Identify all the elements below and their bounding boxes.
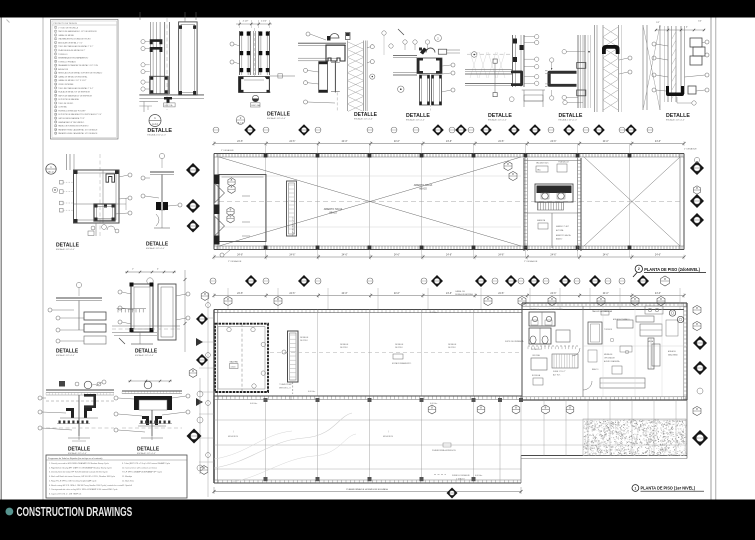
svg-text:4 1/2": 4 1/2"	[261, 21, 267, 23]
svg-text:PARANTE HSS4 CADA METAL 16"O D: PARANTE HSS4 CADA METAL 16"O DE ANCE	[58, 128, 98, 131]
leader circles between details	[382, 31, 386, 35]
svg-text:ABAJO: ABAJO	[419, 187, 427, 190]
svg-text:24'-6": 24'-6"	[498, 292, 504, 295]
svg-text:OFICINA DE: OFICINA DE	[604, 356, 615, 359]
plan 2 left room	[214, 175, 295, 245]
svg-text:9: 9	[55, 57, 56, 59]
svg-text:PARANTE HSS4 CADA METAL 14"O D: PARANTE HSS4 CADA METAL 14"O DE ANCE	[58, 132, 98, 135]
legend notes box	[51, 20, 119, 140]
svg-text:REMOLACION DE METAL SOPORTE DE: REMOLACION DE METAL SOPORTE DE TECHADO	[58, 72, 102, 75]
svg-text:24'-6": 24'-6"	[394, 292, 400, 295]
left col markers mid2	[189, 369, 197, 378]
svg-text:20: 20	[55, 99, 57, 101]
detail T4 head mullion	[393, 29, 460, 121]
svg-text:LAMINA TAB 1/8" RECUBRIDO: LAMINA TAB 1/8" RECUBRIDO	[58, 121, 84, 124]
svg-text:18: 18	[55, 92, 57, 94]
sheet left border line	[42, 18, 44, 500]
svg-text:19: 19	[55, 95, 57, 97]
svg-text:4": 4"	[659, 27, 661, 29]
svg-text:CANAL DE METAL: CANAL DE METAL	[58, 34, 74, 37]
top black border strip	[0, 0, 755, 18]
svg-text:ALTURA: ALTURA	[556, 229, 564, 232]
svg-text:24'-6": 24'-6"	[237, 140, 243, 143]
svg-text:OFICINA: OFICINA	[532, 354, 540, 357]
svg-text:PLACA DE METAL 7/8" DE ESPESOR: PLACA DE METAL 7/8" DE ESPESOR	[58, 91, 90, 94]
svg-text:ABAJO: ABAJO	[556, 238, 563, 241]
svg-text:2' M ALTO: 2' M ALTO	[456, 477, 465, 480]
svg-text:22: 22	[55, 107, 57, 109]
svg-text:TUBO DE VIDRIO: TUBO DE VIDRIO	[58, 103, 74, 105]
svg-text:ESCALA 1 1/2"=1'-0": ESCALA 1 1/2"=1'-0"	[559, 118, 578, 121]
svg-text:27: 27	[55, 126, 57, 128]
svg-text:24'-6": 24'-6"	[342, 292, 348, 295]
svg-text:VAC: VAC	[537, 169, 542, 172]
plan 2 title	[633, 265, 706, 277]
plan 1 title	[632, 485, 704, 492]
svg-text:13: 13	[55, 73, 57, 75]
svg-text:4.00 Hrs: 4.00 Hrs	[308, 390, 315, 393]
svg-text:PANEL DE HORMIGON EXPUESTO: PANEL DE HORMIGON EXPUESTO	[58, 125, 89, 128]
svg-text:DETALLE: DETALLE	[267, 111, 290, 117]
svg-text:24'-6": 24'-6"	[550, 140, 556, 143]
svg-text:A-4.3: A-4.3	[238, 122, 244, 125]
svg-text:24'-6": 24'-6"	[498, 140, 504, 143]
plan 1 top edge wall	[214, 310, 684, 484]
svg-text:DETALLE: DETALLE	[56, 348, 79, 354]
platform column grid	[214, 398, 687, 481]
svg-text:8. Caprico BT UTIL D . DIE TEM: 8. Caprico BT UTIL D . DIE TEMP 0.6	[49, 492, 82, 495]
svg-text:10. Concurrence with contracts: 10. Concurrence with contracts at times)	[122, 466, 157, 469]
svg-text:TAPON DE MADERA 3/4" DE ESPESO: TAPON DE MADERA 3/4" DE ESPESOR	[58, 94, 92, 97]
svg-text:2" DESAGUE: 2" DESAGUE	[221, 149, 234, 152]
svg-text:ESC GA: ESC GA	[252, 104, 261, 107]
svg-text:ESCALA 1 1/2"=1'-0": ESCALA 1 1/2"=1'-0"	[137, 452, 156, 455]
svg-text:24'-6": 24'-6"	[655, 140, 661, 143]
svg-text:24'-6": 24'-6"	[446, 140, 452, 143]
svg-text:PLANTA DE PISO (1er NIVEL): PLANTA DE PISO (1er NIVEL)	[641, 485, 696, 490]
svg-text:DE PISO: DE PISO	[340, 347, 348, 349]
detail L4 window jamb vertical	[112, 269, 190, 358]
plan 2 centerlines	[219, 176, 684, 227]
detail T3 head section with hatch	[298, 32, 377, 121]
main block entrance and benches	[645, 306, 684, 369]
svg-text:SOPORTE DE MADERA: SOPORTE DE MADERA	[58, 98, 79, 101]
detail T8a X braced strip	[643, 25, 660, 110]
plan 2 X bracing open bays	[219, 157, 680, 246]
svg-text:8: 8	[55, 54, 56, 56]
svg-text:24'-6": 24'-6"	[603, 140, 609, 143]
svg-text:1: 1	[55, 27, 56, 29]
svg-text:DETALLE: DETALLE	[68, 446, 91, 452]
svg-text:PROYECTO DE TECHOS: PROYECTO DE TECHOS	[54, 23, 78, 25]
svg-text:24'-6": 24'-6"	[603, 253, 609, 256]
svg-text:ESCALA 1 1/2"=1'-0": ESCALA 1 1/2"=1'-0"	[147, 133, 166, 136]
svg-text:VER DE LL.O: VER DE LL.O	[279, 388, 291, 390]
svg-text:24'-6": 24'-6"	[237, 253, 243, 256]
svg-text:DETALLE: DETALLE	[448, 343, 457, 346]
svg-text:CONSTRUCTION DRAWINGS: CONSTRUCTION DRAWINGS	[17, 506, 133, 520]
svg-text:TORNILLO PRIVADO: TORNILLO PRIVADO	[58, 60, 76, 63]
svg-text:24'-6": 24'-6"	[446, 292, 452, 295]
svg-text:DE PISO: DE PISO	[448, 347, 456, 349]
svg-text:PLATAFORMA HORMIGON: PLATAFORMA HORMIGON	[432, 449, 456, 452]
svg-text:ABAJO: ABAJO	[329, 211, 337, 214]
svg-text:15: 15	[55, 80, 57, 82]
svg-text:ACERO MADERA: ACERO MADERA	[604, 360, 620, 363]
svg-text:ESCALA 1 1/2"=1'-0": ESCALA 1 1/2"=1'-0"	[135, 354, 154, 357]
svg-text:"CLAVE PUMP": "CLAVE PUMP"	[279, 383, 293, 386]
svg-text:4.60m: 4.60m	[231, 366, 237, 368]
svg-text:ANGULAR DE METAL 2" X 2": ANGULAR DE METAL 2" X 2"	[58, 41, 83, 44]
svg-text:PASAMANOS TAPACAP DE METAL 1 1: PASAMANOS TAPACAP DE METAL 1 1/2" CON	[58, 64, 98, 67]
svg-text:DETALLE: DETALLE	[395, 343, 404, 346]
svg-text:CANAL DE: CANAL DE	[455, 290, 466, 293]
svg-text:BANCO: BANCO	[592, 368, 599, 371]
svg-text:ESCALA 1 1/2"=1'-0": ESCALA 1 1/2"=1'-0"	[146, 247, 165, 250]
svg-text:14: 14	[55, 76, 57, 78]
svg-text:MOHOSOS: MOHOSOS	[228, 436, 239, 438]
svg-text:PLANTA DE PISO (2doNIVEL): PLANTA DE PISO (2doNIVEL)	[644, 267, 700, 272]
svg-text:W PASILLO: W PASILLO	[531, 348, 542, 351]
main block bathrooms	[528, 308, 580, 351]
svg-text:2" DESAGUE: 2" DESAGUE	[228, 260, 242, 263]
svg-text:2": 2"	[132, 269, 134, 271]
svg-text:2" DESAGUE: 2" DESAGUE	[684, 148, 697, 151]
svg-text:12: 12	[55, 69, 57, 71]
detail L1 corner mullion plan	[46, 154, 132, 251]
svg-text:6. Reach swing HP. P.S. SPH+L: 6. Reach swing HP. P.S. SPH+L OM SM Trax…	[49, 484, 122, 487]
plan 2 stair shaft	[287, 181, 297, 236]
left col bottom ref markers	[187, 378, 204, 474]
svg-text:MANSO 2" ALT: MANSO 2" ALT	[556, 225, 570, 228]
concrete speckle texture	[583, 419, 687, 456]
detail T6 channel at column	[545, 35, 591, 121]
svg-text:13. Specfull: 13. Specfull	[122, 485, 133, 487]
svg-text:ESCALA 1 1/2"=1'-0": ESCALA 1 1/2"=1'-0"	[354, 118, 373, 121]
svg-text:PLANCHUELA DE METAL DE 2": PLANCHUELA DE METAL DE 2"	[58, 49, 85, 52]
svg-text:24'-6": 24'-6"	[289, 292, 295, 295]
svg-text:DETALLE: DETALLE	[146, 241, 169, 247]
footer teal bullet	[5, 508, 13, 516]
svg-text:DETALLE: DETALLE	[340, 343, 349, 346]
plan 2 column grid	[264, 144, 632, 258]
left sheet edge line	[0, 18, 2, 500]
svg-text:23: 23	[55, 110, 57, 112]
plan 2 dimension line below	[213, 250, 686, 263]
svg-text:AREA DE: AREA DE	[668, 350, 677, 353]
svg-text:ESCALA 1 1/2"=1'-0": ESCALA 1 1/2"=1'-0"	[267, 117, 286, 120]
plan1 grid extension lines	[228, 288, 680, 309]
plan 1 veranda strip	[214, 310, 524, 401]
svg-text:TRAGALUZ: TRAGALUZ	[558, 161, 569, 164]
detail T2 mullion elevation	[230, 20, 295, 125]
svg-text:ESCALA 1 1/2"=1'-0": ESCALA 1 1/2"=1'-0"	[68, 452, 87, 455]
svg-text:17: 17	[55, 88, 57, 90]
svg-text:28: 28	[55, 129, 57, 131]
svg-text:TUBO RECTANGULAR DE METAL 2" X: TUBO RECTANGULAR DE METAL 2" X 2"	[58, 45, 93, 48]
svg-text:TALLER DE MADERA: TALLER DE MADERA	[592, 310, 613, 313]
svg-text:11. Mordaje: 11. Mordaje	[122, 475, 133, 478]
svg-text:BODEGA: BODEGA	[532, 374, 541, 377]
left mid marker diamonds	[186, 163, 200, 233]
svg-text:24'-6": 24'-6"	[603, 292, 609, 295]
svg-text:5. Rayo Pre-E SPH+L UNO exciti: 5. Rayo Pre-E SPH+L UNO exciting Tarqled…	[49, 479, 97, 482]
svg-text:5: 5	[55, 42, 56, 44]
svg-text:24'-6": 24'-6"	[289, 140, 295, 143]
svg-text:ESCALA 1 1/2"=1'-0": ESCALA 1 1/2"=1'-0"	[666, 119, 685, 122]
svg-text:ALT W.T.: ALT W.T.	[553, 374, 561, 377]
svg-text:A-4.2: A-4.2	[152, 123, 158, 126]
svg-text:4": 4"	[157, 269, 159, 271]
svg-text:TUBO RECTANGULAR DE METAL 2" X: TUBO RECTANGULAR DE METAL 2" X 4"	[58, 87, 93, 90]
svg-text:VIDRIO INTERME: VIDRIO INTERME	[58, 84, 74, 86]
svg-text:1: 1	[635, 486, 637, 490]
svg-text:24'-6": 24'-6"	[655, 292, 661, 295]
svg-text:SUITE DE VERANDA: SUITE DE VERANDA	[505, 340, 524, 343]
plan 1 pump shaft	[279, 331, 309, 394]
svg-text:MOHOSOS: MOHOSOS	[383, 436, 394, 438]
svg-text:GUARDARROPA: GUARDARROPA	[548, 308, 563, 311]
svg-text:2: 2	[55, 31, 56, 33]
svg-text:DE PISO: DE PISO	[395, 347, 403, 349]
svg-text:ESCALA 1 1/2"=1'-0": ESCALA 1 1/2"=1'-0"	[406, 118, 425, 121]
svg-text:9. Tufos (BRT UTIL+O 9 qil +L: 9. Tufos (BRT UTIL+O 9 qil +LDO trained …	[122, 462, 171, 465]
svg-text:16: 16	[55, 84, 57, 86]
svg-text:24'-6": 24'-6"	[237, 292, 243, 295]
svg-text:11: 11	[55, 65, 57, 67]
svg-text:TAPON DE MADERA DE 1 1/2" DE E: TAPON DE MADERA DE 1 1/2" DE ESPESOR	[58, 30, 97, 33]
svg-text:2" DESAGUE: 2" DESAGUE	[524, 260, 538, 263]
svg-text:ESCALA 1 1/2"=1'-0": ESCALA 1 1/2"=1'-0"	[56, 248, 75, 251]
svg-text:GALERA: GALERA	[230, 360, 239, 363]
plan 2 service core	[504, 158, 581, 251]
plan 2 dimension line above	[213, 140, 698, 152]
detail L3 soffit section	[48, 282, 106, 357]
svg-text:MESA DE: MESA DE	[604, 353, 613, 356]
general notes table	[46, 455, 187, 498]
platform dimension line	[213, 487, 523, 499]
svg-text:DETALLE: DETALLE	[56, 242, 79, 248]
svg-text:ENTRADA: ENTRADA	[530, 308, 540, 311]
plan1 right margin markers	[692, 305, 708, 446]
platform edges	[214, 400, 687, 483]
svg-text:DETALLE: DETALLE	[406, 113, 430, 119]
svg-text:A6-12: A6-12	[48, 171, 54, 174]
svg-text:24'-6": 24'-6"	[289, 253, 295, 256]
svg-text:SUBE EL DESAGUE: SUBE EL DESAGUE	[452, 474, 470, 477]
svg-text:4. Rock self Batch de traver: 4. Rock self Batch de traver Screens, HP…	[49, 475, 116, 478]
svg-text:DETALLE: DETALLE	[147, 128, 172, 134]
main block extra furniture	[572, 307, 687, 397]
svg-text:ESC DA: ESC DA	[165, 104, 173, 107]
svg-text:ESCALA 1 1/2"=1'-0": ESCALA 1 1/2"=1'-0"	[56, 354, 75, 357]
plan 2 perimeter walls	[214, 154, 684, 250]
main block workshop	[583, 307, 678, 397]
svg-text:24'-6": 24'-6"	[498, 253, 504, 256]
main block stair and offices	[531, 354, 578, 385]
svg-text:24'-6": 24'-6"	[655, 253, 661, 256]
svg-text:24'-6": 24'-6"	[342, 253, 348, 256]
svg-text:ESCALA 1 1/2"=1'-0": ESCALA 1 1/2"=1'-0"	[488, 119, 507, 122]
svg-text:Programas de Todo los Rejados: Programas de Todo los Rejados (los inclu…	[48, 457, 103, 460]
svg-text:4 1/2": 4 1/2"	[243, 21, 249, 23]
svg-text:AISLACION: AISLACION	[58, 68, 68, 71]
sheet right border outer line	[715, 18, 717, 500]
svg-text:CANAL DE METAL CHORIZONTAL: CANAL DE METAL CHORIZONTAL	[58, 75, 87, 78]
plan 1 galera room	[215, 324, 268, 392]
section marker row above plan 2	[213, 124, 653, 136]
bottom black border strip	[0, 500, 755, 540]
svg-text:DETALLE: DETALLE	[135, 348, 158, 354]
svg-text:CAPOLETA DE MADERA 7"X 9": CAPOLETA DE MADERA 7"X 9"	[58, 117, 85, 120]
svg-text:29: 29	[55, 133, 57, 135]
svg-text:3. Directly Semi be below HP T: 3. Directly Semi be below HP TU/CSS (D45…	[49, 471, 109, 474]
marker row between plans	[210, 275, 669, 287]
detail B1 ceiling hanger	[38, 380, 114, 455]
detail L2 I-beam hanger	[141, 153, 182, 250]
svg-text:AREA DE TRABAJO: AREA DE TRABAJO	[613, 318, 630, 321]
svg-text:VIA PARA ESTRUCTURAS DE TECHO: VIA PARA ESTRUCTURAS DE TECHO	[58, 38, 91, 41]
svg-text:MASETA: MASETA	[537, 219, 546, 222]
svg-text:DETALLE: DETALLE	[300, 336, 309, 339]
svg-text:TORNILLO: TORNILLO	[58, 54, 68, 56]
svg-text:24'-6": 24'-6"	[550, 253, 556, 256]
svg-text:CANAL DE METAL C 1/2" X 3 1/2": CANAL DE METAL C 1/2" X 3 1/2"	[58, 79, 86, 82]
svg-text:2: 2	[638, 267, 640, 271]
detail T9 rightmost section	[652, 21, 709, 122]
svg-text:VACIADO A/C: VACIADO A/C	[536, 162, 549, 165]
svg-text:1. Directly secured to HSS DRI: 1. Directly secured to HSS DRILL/DEASAP …	[49, 462, 110, 465]
svg-text:TORNOS: TORNOS	[604, 329, 613, 331]
svg-text:1/4": 1/4"	[698, 21, 702, 23]
margin registration mark	[7, 20, 10, 23]
svg-text:PLATAFORMA DE HORMIGON ELEV: PLATAFORMA DE HORMIGON ELEVADA	[346, 488, 388, 491]
svg-text:21: 21	[55, 103, 57, 105]
svg-text:DETALLE: DETALLE	[354, 112, 377, 118]
detail T1 roof channel section	[139, 12, 204, 136]
svg-text:ABIERTO HACIA: ABIERTO HACIA	[556, 234, 571, 237]
svg-text:4.00 Hrs: 4.00 Hrs	[430, 311, 437, 314]
svg-text:CORTINA: CORTINA	[58, 106, 67, 109]
svg-text:MAQUINAS: MAQUINAS	[668, 353, 678, 356]
svg-text:24'-6": 24'-6"	[394, 140, 400, 143]
svg-text:7. Consignando de color ua fo: 7. Consignando de color ua fog HP.S. SPH…	[49, 488, 118, 491]
svg-text:25: 25	[55, 118, 57, 120]
svg-text:4.00 Hrs: 4.00 Hrs	[250, 402, 257, 405]
detail B2 ceiling channel	[114, 380, 190, 455]
svg-text:PUERTA CORREDIZA "POCKET": PUERTA CORREDIZA "POCKET"	[58, 109, 86, 112]
svg-text:24: 24	[55, 114, 57, 116]
platform labels	[228, 402, 574, 480]
svg-text:4": 4"	[686, 27, 688, 29]
svg-text:SOPORTE DE MADERA CTRL VERTICA: SOPORTE DE MADERA CTRL VERTICALES 2" X 4…	[58, 113, 102, 116]
svg-text:DETALLE: DETALLE	[559, 113, 583, 119]
svg-text:24'-6": 24'-6"	[550, 292, 556, 295]
svg-text:DE PISO: DE PISO	[300, 340, 308, 342]
svg-text:10: 10	[55, 61, 57, 63]
svg-text:12. Back Stes: 12. Back Stes	[122, 479, 134, 482]
detail T7 hatched wall with cap	[595, 25, 633, 112]
svg-text:7: 7	[55, 50, 56, 52]
sheet right border inner line	[710, 18, 712, 500]
svg-text:6: 6	[55, 46, 56, 48]
svg-text:ESTACIONAMIENTO: ESTACIONAMIENTO	[392, 362, 412, 365]
svg-text:4.00 Hrs: 4.00 Hrs	[475, 474, 482, 477]
svg-text:24'-6": 24'-6"	[342, 140, 348, 143]
svg-text:24'-6": 24'-6"	[446, 253, 452, 256]
svg-text:1/2": 1/2"	[656, 22, 660, 24]
svg-text:3: 3	[55, 35, 56, 37]
svg-text:SUBE 17 16.7": SUBE 17 16.7"	[553, 371, 566, 373]
plan1 left margin markers	[196, 292, 214, 497]
svg-text:DETALLE: DETALLE	[137, 446, 160, 452]
detail T5 sill at mullion	[465, 35, 545, 122]
main block perimeter walls	[522, 303, 687, 400]
svg-text:PLAFON ALTO +9'-0": PLAFON ALTO +9'-0"	[292, 217, 295, 236]
svg-text:4: 4	[55, 39, 56, 41]
svg-text:MEMBRANA DE ENCHAPAMIENTO: MEMBRANA DE ENCHAPAMIENTO	[58, 56, 89, 59]
svg-text:2" TUBO DE TECHILLA: 2" TUBO DE TECHILLA	[58, 26, 78, 29]
plan 1 dimension rows above	[213, 290, 686, 306]
svg-text:DETALLE: DETALLE	[488, 113, 512, 119]
plan 2 right margin markers	[690, 157, 704, 227]
svg-text:DESAGUE ARRIBA: DESAGUE ARRIBA	[455, 293, 473, 296]
svg-text:YO+P SPH 0.5/BAMPL/DIE/RABAP S: YO+P SPH 0.5/BAMPL/DIE/RABAP SP* Cycle	[122, 471, 163, 474]
svg-text:24'-6": 24'-6"	[394, 253, 400, 256]
svg-text:26: 26	[55, 122, 57, 124]
svg-text:2. Rigid before Gravity APT D/: 2. Rigid before Gravity APT D/API O LOE/…	[49, 466, 113, 469]
svg-text:DETALLE: DETALLE	[666, 113, 690, 119]
platform contour curves	[214, 413, 356, 482]
